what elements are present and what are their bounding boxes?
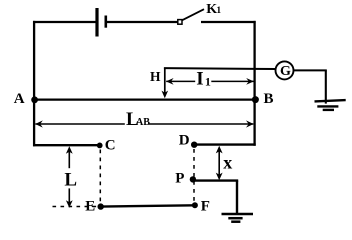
svg-text:D: D	[179, 133, 190, 149]
node C	[97, 143, 103, 149]
node P	[190, 176, 196, 182]
node A	[31, 96, 38, 103]
svg-text:F: F	[201, 199, 210, 215]
label I1	[196, 69, 211, 90]
wire: jockey H to galvanometer	[164, 67, 276, 70]
svg-text:I: I	[196, 69, 203, 90]
svg-text:1: 1	[216, 6, 221, 16]
wire: left vertical A column	[33, 21, 35, 146]
dashed guide C to E	[99, 150, 101, 204]
wire: top rail left segment	[33, 21, 96, 23]
wire: rail from D to B column	[194, 143, 256, 145]
node B	[252, 96, 259, 103]
svg-text:L: L	[64, 170, 77, 191]
svg-text:1: 1	[205, 74, 211, 88]
wire: right vertical B column	[253, 21, 255, 146]
ground (galvanometer side)	[315, 100, 346, 110]
wire: rail from A column to C	[33, 144, 100, 146]
wire: E to F	[101, 205, 195, 206]
wire: slide wire A-B	[33, 98, 256, 100]
ground (P side)	[222, 214, 254, 222]
dimension line L with arrows	[66, 146, 73, 208]
wire: top rail right segment	[201, 21, 256, 23]
svg-text:x: x	[223, 153, 232, 173]
switch K1	[178, 9, 204, 24]
svg-text:AB: AB	[136, 117, 150, 128]
node D	[191, 142, 197, 148]
label LAB	[126, 109, 150, 130]
dashed guide D to F	[193, 149, 195, 202]
battery B1	[95, 8, 107, 37]
jockey H contact arrow onto wire AB	[162, 68, 169, 99]
dashed extension left of E	[53, 206, 97, 208]
wire: top rail middle segment	[107, 21, 178, 23]
node F	[192, 202, 198, 208]
label K1	[206, 2, 221, 17]
wire: galvanometer to ground	[293, 70, 327, 103]
galvanometer G	[276, 61, 294, 79]
svg-text:C: C	[105, 137, 116, 153]
svg-text:G: G	[280, 64, 291, 79]
svg-text:P: P	[175, 170, 184, 186]
dimension line LAB with arrows	[35, 120, 253, 127]
svg-text:A: A	[14, 91, 25, 107]
svg-text:B: B	[264, 91, 274, 107]
dimension line I1 with arrows	[166, 78, 254, 85]
node E	[98, 203, 104, 209]
wire: P to ground drop	[193, 181, 238, 215]
svg-text:H: H	[150, 69, 161, 84]
dimension line x with arrows	[216, 146, 223, 180]
